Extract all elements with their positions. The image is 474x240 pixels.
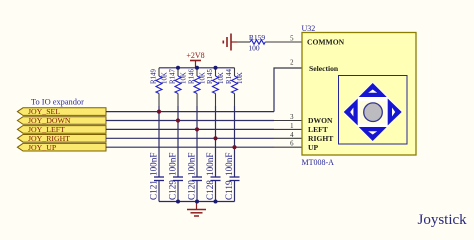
- junction: bottom bus at rail 4: [214, 200, 218, 204]
- joystick icon white diamond: [343, 82, 403, 142]
- wire: rail 3 vertical: [196, 106, 198, 177]
- wire: JOY_RIGHT horizontal: [106, 137, 274, 139]
- svg-text:R159: R159: [249, 33, 266, 42]
- pin 1 stub: [274, 128, 302, 130]
- svg-text:R144: R144: [226, 69, 233, 84]
- svg-text:3: 3: [290, 114, 294, 121]
- svg-text:R149: R149: [151, 69, 158, 84]
- junction: rail 5 / JOY_UP: [232, 145, 236, 149]
- svg-text:C128: C128: [205, 180, 215, 200]
- pin 2 stub: [274, 67, 302, 69]
- svg-text:100nF: 100nF: [224, 153, 234, 177]
- joystick icon down triangle: [359, 127, 387, 141]
- resistor R147: [170, 68, 188, 106]
- svg-text:JOY_RIGHT: JOY_RIGHT: [28, 134, 70, 143]
- wire: rail 2 vertical: [177, 106, 179, 177]
- joystick icon up triangle: [359, 83, 387, 97]
- junction: rail 3 / JOY_LEFT: [195, 127, 199, 131]
- svg-text:100nF: 100nF: [187, 153, 197, 177]
- resistor R159: [237, 33, 265, 53]
- resistor R145: [207, 68, 225, 106]
- wire: ground bottom bus: [159, 201, 235, 203]
- power +2V8 bar symbol at R159: [223, 34, 237, 51]
- pin 3 stub: [274, 120, 302, 122]
- port JOY_LEFT: [17, 125, 106, 134]
- svg-text:R147: R147: [170, 69, 177, 84]
- joystick icon right triangle: [388, 99, 402, 126]
- svg-text:DWON: DWON: [308, 116, 333, 125]
- svg-text:C121: C121: [149, 180, 159, 200]
- svg-text:10K: 10K: [218, 72, 225, 84]
- junction: rail 1 / JOY_SEL: [157, 110, 161, 114]
- wire: rail 5 vertical: [234, 106, 236, 177]
- junction: top bus at rail 2: [176, 66, 180, 70]
- capacitor C121: [149, 153, 165, 202]
- svg-text:RIGHT: RIGHT: [308, 134, 333, 143]
- svg-text:10K: 10K: [200, 72, 207, 84]
- svg-text:U32: U32: [302, 24, 316, 33]
- junction: bottom bus at rail 2: [176, 200, 180, 204]
- resistor R146: [189, 68, 207, 106]
- svg-text:5: 5: [290, 36, 294, 43]
- joystick icon yellow center: [360, 101, 387, 123]
- wire: JOY_UP horizontal: [106, 146, 274, 148]
- svg-text:C120: C120: [187, 180, 197, 200]
- capacitor C119: [224, 153, 240, 202]
- pin 5 wire (COMMON): [265, 41, 302, 43]
- svg-text:100nF: 100nF: [168, 153, 178, 177]
- wire: rail 4 vertical: [215, 106, 217, 177]
- wire: JOY_DOWN horizontal: [106, 120, 274, 122]
- svg-text:JOY_SEL: JOY_SEL: [28, 107, 60, 116]
- joystick icon center knob: [364, 103, 383, 122]
- svg-text:JOY_LEFT: JOY_LEFT: [28, 125, 65, 134]
- svg-text:10K: 10K: [237, 72, 244, 84]
- capacitor C129: [168, 153, 184, 202]
- junction: bottom bus at rail 3: [195, 200, 199, 204]
- joystick icon square: [339, 76, 408, 145]
- svg-text:C129: C129: [168, 180, 178, 200]
- pin 4 stub: [274, 137, 302, 139]
- junction: rail 2 / JOY_DOWN: [176, 118, 180, 122]
- svg-text:COMMON: COMMON: [307, 37, 345, 46]
- junction: top bus at rail 3: [195, 66, 199, 70]
- svg-text:UP: UP: [308, 143, 318, 152]
- svg-text:1: 1: [290, 123, 293, 130]
- port JOY_RIGHT: [17, 134, 106, 143]
- svg-text:C119: C119: [224, 180, 234, 200]
- svg-text:R145: R145: [207, 69, 214, 84]
- port JOY_UP: [17, 143, 106, 152]
- wire: +2V8 top bus: [159, 67, 235, 69]
- svg-text:4: 4: [290, 132, 294, 139]
- svg-text:MT008-A: MT008-A: [302, 158, 335, 167]
- svg-text:2: 2: [290, 59, 294, 66]
- svg-text:10K: 10K: [181, 72, 188, 84]
- wire: JOY_SEL horizontal: [106, 111, 274, 113]
- resistor R149: [151, 68, 169, 106]
- svg-text:100nF: 100nF: [205, 153, 215, 177]
- wire: JOY_LEFT horizontal: [106, 128, 274, 130]
- junction: rail 4 / JOY_RIGHT: [213, 136, 217, 140]
- svg-text:Selection: Selection: [309, 64, 339, 73]
- ground: [187, 202, 206, 217]
- wire: JOY_SEL riser to pin 2: [274, 68, 302, 112]
- capacitor C128: [205, 153, 221, 202]
- capacitor C120: [187, 153, 203, 202]
- svg-text:Joystick: Joystick: [418, 212, 468, 228]
- pin 6 stub: [274, 146, 302, 148]
- op-amp U32 body: [302, 24, 417, 167]
- svg-text:6: 6: [290, 141, 294, 148]
- svg-text:100nF: 100nF: [149, 153, 159, 177]
- svg-text:R146: R146: [189, 69, 196, 84]
- resistor R144: [226, 68, 244, 106]
- svg-text:JOY_UP: JOY_UP: [28, 143, 57, 152]
- junction: top bus at rail 4: [214, 66, 218, 70]
- port JOY_DOWN: [17, 116, 106, 125]
- svg-text:LEFT: LEFT: [308, 125, 328, 134]
- joystick icon left triangle: [344, 99, 358, 126]
- svg-text:10K: 10K: [162, 72, 169, 84]
- power +2V8: [186, 51, 204, 68]
- svg-text:100: 100: [248, 44, 260, 53]
- svg-text:To IO expandor: To IO expandor: [31, 98, 84, 107]
- svg-text:+2V8: +2V8: [186, 51, 204, 60]
- svg-text:JOY_DOWN: JOY_DOWN: [28, 116, 71, 125]
- port JOY_SEL: [17, 107, 106, 116]
- wire: rail 1 vertical: [158, 106, 160, 177]
